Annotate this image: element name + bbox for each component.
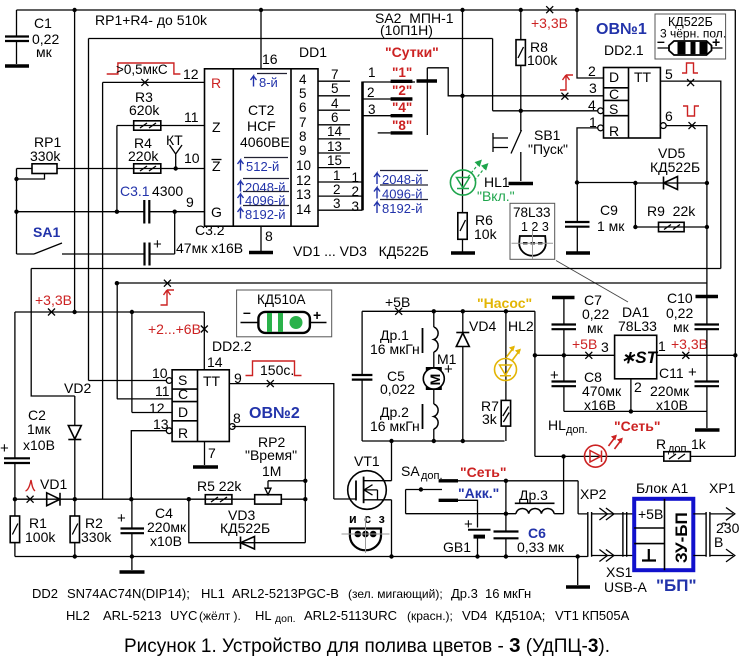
svg-text:6: 6 bbox=[299, 100, 307, 115]
svg-text:S: S bbox=[609, 101, 618, 117]
svg-text:3: 3 bbox=[601, 339, 609, 355]
potentiometer RP2 bbox=[245, 434, 305, 504]
svg-text:1k: 1k bbox=[691, 436, 707, 452]
svg-text:DD2.1: DD2.1 bbox=[604, 42, 644, 58]
resistor R1 bbox=[10, 499, 56, 556]
svg-text:ARL2-5113URC: ARL2-5113URC bbox=[304, 608, 397, 623]
edge symbol at C input bbox=[560, 75, 573, 90]
svg-text:"Вкл.": "Вкл." bbox=[477, 188, 515, 204]
potentiometer RP1 bbox=[14, 134, 61, 181]
svg-text:620k: 620k bbox=[129, 102, 160, 118]
svg-text:11: 11 bbox=[184, 109, 199, 125]
svg-text:"Сеть": "Сеть" bbox=[614, 418, 660, 434]
svg-text:3k: 3k bbox=[482, 411, 498, 427]
svg-text:10k: 10k bbox=[474, 226, 498, 242]
svg-text:13: 13 bbox=[327, 139, 342, 154]
svg-text:Z: Z bbox=[212, 119, 221, 135]
svg-text:VD1 ... VD3 КД522Б: VD1 ... VD3 КД522Б bbox=[293, 243, 429, 259]
DD1 outside pin numbers bbox=[327, 67, 359, 214]
svg-text:8192-й: 8192-й bbox=[382, 201, 423, 216]
red spike symbol bbox=[26, 480, 36, 491]
diode VD1 bbox=[40, 476, 67, 506]
svg-text:3: 3 bbox=[589, 80, 597, 96]
svg-text:R: R bbox=[211, 75, 221, 91]
svg-text:100k: 100k bbox=[527, 52, 558, 68]
pulse label >0,5мкС bbox=[107, 62, 199, 82]
svg-text:13: 13 bbox=[296, 187, 311, 202]
svg-text:78L33: 78L33 bbox=[618, 318, 657, 334]
test point KT bbox=[166, 132, 183, 171]
svg-text:16 мкГн: 16 мкГн bbox=[370, 341, 420, 357]
capacitor C8 bbox=[550, 355, 622, 413]
X on +3.3V mid right bbox=[682, 352, 689, 359]
wire vertical x117 to DD2.2 C input bbox=[116, 283, 118, 399]
wire DD2.2 pin8 output to RP2 bbox=[232, 427, 305, 543]
svg-text:6: 6 bbox=[331, 110, 339, 125]
resistor R2 bbox=[70, 499, 112, 556]
capacitor C11 bbox=[650, 355, 719, 413]
svg-text:+: + bbox=[550, 367, 559, 384]
IC DD1 CT2 HCF4060BE bbox=[205, 44, 328, 226]
ground C1 bbox=[5, 64, 29, 68]
svg-text:47мк х16В: 47мк х16В bbox=[176, 240, 243, 256]
svg-text:12: 12 bbox=[183, 66, 199, 82]
svg-text:мк: мк bbox=[36, 44, 53, 60]
svg-text:+: + bbox=[313, 307, 321, 323]
svg-text:(красн.);: (красн.); bbox=[407, 609, 453, 623]
wire bottom ground rail bbox=[15, 556, 588, 558]
svg-text:R: R bbox=[178, 425, 188, 441]
svg-text:4060BE: 4060BE bbox=[240, 134, 290, 150]
svg-text:4300: 4300 bbox=[152, 183, 183, 199]
wire DD2.2 S pin bbox=[89, 380, 167, 382]
svg-text:КТ: КТ bbox=[166, 132, 183, 148]
svg-text:+2...+6В: +2...+6В bbox=[148, 321, 201, 337]
switch SA1 bbox=[17, 224, 63, 254]
wire DD2.2 R pin bbox=[131, 431, 166, 500]
svg-text:х10В: х10В bbox=[656, 397, 688, 413]
battery GB1 bbox=[443, 516, 491, 557]
svg-text:5: 5 bbox=[331, 81, 339, 96]
wire long bus x102.6 bbox=[102, 82, 104, 499]
wire top +3.3V rail bbox=[17, 9, 736, 11]
svg-text:"БП": "БП" bbox=[656, 576, 697, 595]
svg-text:HL: HL bbox=[548, 417, 566, 433]
svg-text:14: 14 bbox=[207, 354, 223, 370]
resistor R8 bbox=[516, 10, 558, 113]
svg-text:4: 4 bbox=[299, 72, 307, 87]
capacitor C6 bbox=[494, 481, 565, 557]
bottom part list text bbox=[32, 586, 630, 625]
DA1 bottom rail bbox=[564, 410, 707, 412]
IC DA1 78L33 bbox=[615, 304, 659, 379]
svg-text:"Сеть": "Сеть" bbox=[460, 464, 506, 480]
svg-text:G: G bbox=[211, 204, 222, 220]
svg-text:XS1: XS1 bbox=[606, 564, 633, 580]
capacitor C5 bbox=[352, 311, 415, 441]
resistor Rdop 1k bbox=[656, 355, 735, 461]
svg-text:Z: Z bbox=[212, 158, 221, 174]
inductor Dr.2 bbox=[370, 390, 438, 441]
svg-text:2: 2 bbox=[634, 379, 642, 395]
svg-text:+5В: +5В bbox=[572, 336, 597, 352]
svg-text:8: 8 bbox=[265, 228, 273, 244]
svg-text:3: 3 bbox=[368, 102, 376, 117]
wire DD2.2 pin7 ground bbox=[204, 442, 206, 466]
wire VD1-R1 node line y=499.2 bbox=[15, 498, 131, 500]
svg-text:9: 9 bbox=[186, 194, 194, 210]
svg-text:2: 2 bbox=[333, 182, 341, 197]
block A1 power supply bbox=[634, 480, 696, 595]
svg-text:TT: TT bbox=[203, 373, 221, 389]
svg-text:GB1: GB1 bbox=[443, 539, 471, 555]
wire +3.3V mid line y=312 bbox=[15, 311, 204, 313]
svg-text:"8": "8" bbox=[392, 118, 412, 133]
svg-text:16: 16 bbox=[262, 51, 278, 67]
svg-text:0,33 мк: 0,33 мк bbox=[517, 539, 565, 555]
svg-text:+5В: +5В bbox=[385, 294, 410, 310]
IC DD2.2 trigger bbox=[149, 338, 252, 442]
svg-text:КД522Б: КД522Б bbox=[650, 159, 700, 175]
svg-text:"4": "4" bbox=[392, 100, 412, 115]
svg-text:и с з: и с з bbox=[349, 512, 387, 526]
svg-text:C: C bbox=[609, 86, 619, 102]
svg-text:SA: SA bbox=[401, 463, 420, 479]
svg-text:9: 9 bbox=[299, 143, 307, 158]
svg-text:"Сутки": "Сутки" bbox=[385, 44, 439, 60]
wire bus x88 down to DD2.2 S bbox=[88, 39, 90, 381]
svg-text:R5 22k: R5 22k bbox=[197, 478, 242, 494]
svg-text:1 2 3: 1 2 3 bbox=[521, 220, 549, 234]
svg-text:доп.: доп. bbox=[668, 443, 690, 455]
switch SAdop bbox=[401, 463, 578, 528]
wire DD2.1 R pin line bbox=[577, 128, 598, 183]
svg-text:2: 2 bbox=[352, 184, 360, 199]
svg-text:КД510А: КД510А bbox=[257, 292, 306, 307]
svg-text:+3,3В: +3,3В bbox=[35, 292, 72, 308]
svg-text:100k: 100k bbox=[25, 529, 56, 545]
wire DD2.1 D pin from rail bbox=[577, 10, 604, 78]
svg-text:8192-й: 8192-й bbox=[245, 207, 286, 222]
ground C11 bbox=[706, 411, 708, 428]
diode VD5 bbox=[633, 145, 709, 190]
svg-text:1: 1 bbox=[352, 170, 360, 185]
svg-text:10: 10 bbox=[296, 158, 311, 173]
svg-text:+5В: +5В bbox=[638, 506, 663, 522]
switch SA2 MPN-1 bbox=[363, 10, 604, 210]
edge symbol on pin5 net bbox=[161, 290, 175, 305]
svg-text:Др.3: Др.3 bbox=[519, 487, 548, 503]
svg-text:мк: мк bbox=[673, 319, 690, 335]
svg-text:+: + bbox=[0, 440, 9, 457]
svg-text:13: 13 bbox=[153, 416, 169, 432]
info box KD510A bbox=[237, 290, 332, 337]
wire second rail bbox=[89, 38, 493, 40]
svg-text:ЗУ-БП: ЗУ-БП bbox=[672, 512, 691, 563]
wire bus x117 (R3/C3.1/pin5/DD2.2-C node) bbox=[116, 126, 118, 212]
svg-text:КД522Б: КД522Б bbox=[220, 520, 270, 536]
svg-text:Рисунок 1. Устройство для поли: Рисунок 1. Устройство для полива цветов … bbox=[124, 634, 610, 657]
svg-text:–: – bbox=[657, 33, 665, 49]
svg-text:5: 5 bbox=[665, 66, 673, 82]
svg-text:2: 2 bbox=[367, 85, 375, 100]
svg-text:мк: мк bbox=[587, 320, 604, 336]
svg-text:2: 2 bbox=[588, 63, 596, 79]
LED HL2 yellow bbox=[477, 295, 534, 400]
svg-text:HCF: HCF bbox=[247, 118, 276, 134]
wire bus x74 from top rail to +3.3V line bbox=[74, 10, 76, 312]
svg-text:R9 22k: R9 22k bbox=[647, 203, 696, 219]
wire DD2.2 D pin bbox=[132, 312, 172, 413]
svg-text:12: 12 bbox=[149, 400, 165, 416]
svg-text:0,022: 0,022 bbox=[380, 381, 415, 397]
svg-text:+: + bbox=[444, 361, 453, 378]
svg-text:доп.: доп. bbox=[566, 424, 588, 436]
svg-text:D: D bbox=[178, 404, 188, 420]
svg-text:R: R bbox=[656, 436, 666, 452]
svg-text:220k: 220k bbox=[128, 148, 159, 164]
info VT1 package ISZ bbox=[342, 512, 390, 553]
wire DD2.1 S pin line bbox=[493, 39, 598, 111]
svg-text:15: 15 bbox=[327, 153, 342, 168]
svg-text:7: 7 bbox=[208, 445, 216, 461]
svg-text:C9: C9 bbox=[600, 202, 618, 218]
resistor R5 bbox=[129, 478, 255, 504]
svg-text:1 мк: 1 мк bbox=[597, 218, 625, 234]
svg-text:1М: 1М bbox=[262, 463, 281, 479]
svg-text:+3,3В: +3,3В bbox=[531, 15, 568, 31]
svg-text:330k: 330k bbox=[81, 529, 112, 545]
wire DA1 input line bbox=[535, 354, 615, 356]
wire DA1 output +3.3V bbox=[657, 354, 736, 356]
svg-text:х10В: х10В bbox=[23, 437, 55, 453]
svg-text:1: 1 bbox=[368, 65, 376, 80]
capacitor C10 bbox=[666, 290, 719, 355]
svg-text:+: + bbox=[712, 34, 720, 50]
svg-text:1мк: 1мк bbox=[27, 421, 51, 437]
svg-text:ОВ№2: ОВ№2 bbox=[249, 405, 300, 422]
svg-text:USB-A: USB-A bbox=[604, 579, 647, 595]
ground C9 bbox=[566, 251, 590, 255]
capacitor C3.2 bbox=[62, 212, 243, 266]
svg-text:+: + bbox=[153, 236, 162, 253]
svg-text:C: C bbox=[178, 386, 188, 402]
wire DD2.2 pin9 output bbox=[229, 384, 333, 499]
svg-text:14: 14 bbox=[296, 202, 312, 217]
svg-text:16 мкГн: 16 мкГн bbox=[370, 418, 420, 434]
svg-text:DD2SN74AC74N(DIP14);HL1ARL2-52: DD2SN74AC74N(DIP14);HL1ARL2-5213PGC-В(зе… bbox=[32, 586, 531, 601]
svg-text:D: D bbox=[609, 69, 619, 85]
svg-text:TT: TT bbox=[634, 69, 652, 85]
svg-text:VT1: VT1 bbox=[354, 453, 380, 469]
pulse symbol negative bbox=[683, 106, 699, 116]
svg-text:3: 3 bbox=[352, 199, 360, 214]
svg-text:VD1: VD1 bbox=[40, 476, 67, 492]
LED HL1 green bbox=[450, 10, 514, 213]
svg-text:4: 4 bbox=[331, 96, 339, 111]
DD1 pin8 ground bbox=[249, 226, 273, 252]
diode VD4 bbox=[456, 311, 496, 441]
svg-text:R: R bbox=[609, 123, 619, 139]
svg-text:>0,5мкС: >0,5мкС bbox=[116, 62, 168, 77]
svg-text:14: 14 bbox=[327, 124, 343, 139]
svg-text:(10П1Н): (10П1Н) bbox=[380, 22, 433, 38]
DD1 right pin stubs bbox=[318, 81, 363, 210]
ground R6 bbox=[451, 251, 475, 255]
wire VD5 left vertical bbox=[634, 183, 636, 227]
svg-text:х10В: х10В bbox=[150, 533, 182, 549]
capacitor C9 bbox=[565, 180, 635, 251]
svg-text:330k: 330k bbox=[30, 148, 61, 164]
wire x16.5 down bbox=[16, 169, 18, 255]
svg-text:10: 10 bbox=[152, 365, 168, 381]
svg-text:VD4: VD4 bbox=[469, 318, 496, 334]
svg-text:3: 3 bbox=[333, 196, 341, 211]
svg-text:"Пуск": "Пуск" bbox=[528, 141, 568, 157]
inductor Dr.1 bbox=[370, 311, 438, 367]
wire DD2.1 pin5 output bbox=[660, 81, 720, 268]
svg-text:Блок А1: Блок А1 bbox=[636, 480, 688, 496]
resistor R4 bbox=[57, 135, 205, 173]
svg-text:RP1+R4- до 510k: RP1+R4- до 510k bbox=[95, 12, 208, 28]
wire DA1 pin2 bbox=[630, 379, 632, 412]
connector XP2 bbox=[578, 481, 635, 562]
diode VD3 branch bbox=[189, 499, 305, 549]
labels 2048/4096/8192 outside bbox=[374, 171, 428, 217]
svg-text:SA1: SA1 bbox=[33, 224, 60, 240]
pushbutton SB1 bbox=[493, 111, 568, 184]
svg-text:"Насос": "Насос" bbox=[477, 295, 532, 311]
diode VD2 bbox=[64, 380, 91, 499]
svg-text:7: 7 bbox=[331, 67, 339, 82]
svg-text:8: 8 bbox=[299, 129, 307, 144]
pulse label 150c bbox=[246, 361, 302, 378]
info box 78L33 TO-92 bbox=[510, 203, 555, 259]
svg-text:В: В bbox=[714, 534, 723, 550]
wire pin6 bus joins C10 bbox=[706, 283, 708, 298]
svg-text:78L33: 78L33 bbox=[513, 205, 551, 220]
svg-text:11: 11 bbox=[155, 383, 170, 399]
svg-text:+3,3В: +3,3В bbox=[671, 336, 708, 352]
X mark on top rail bbox=[546, 6, 553, 13]
pulse symbol positive bbox=[682, 63, 698, 73]
svg-text:х16В: х16В bbox=[584, 397, 616, 413]
wire reset net y=269.6 (DD2.1 pin6 to VD2) bbox=[31, 268, 721, 270]
capacitor C3.1 bbox=[14, 183, 204, 224]
svg-text:7: 7 bbox=[299, 115, 307, 130]
IC DD2.1 trigger bbox=[588, 21, 660, 139]
resistor R7 bbox=[481, 398, 511, 441]
svg-text:10: 10 bbox=[184, 150, 200, 166]
pump bottom rail bbox=[362, 440, 504, 442]
inductor Dr.3 bbox=[406, 456, 564, 513]
wire DD1 pin16 feed bbox=[260, 10, 262, 69]
svg-text:5: 5 bbox=[299, 86, 307, 101]
svg-text:C3.1: C3.1 bbox=[120, 183, 150, 199]
svg-text:ХР2: ХР2 bbox=[580, 486, 607, 502]
svg-text:1: 1 bbox=[333, 168, 341, 183]
DD1 stage labels blue bbox=[238, 74, 290, 223]
ground XS1 bbox=[577, 557, 579, 586]
motor M1 bbox=[423, 351, 456, 390]
svg-text:"2": "2" bbox=[392, 83, 412, 98]
svg-text:DD2.2: DD2.2 bbox=[212, 338, 252, 354]
capacitor C2 bbox=[0, 312, 55, 499]
svg-text:CT2: CT2 bbox=[248, 102, 275, 118]
callout line 78L33 to DA1 bbox=[556, 261, 628, 303]
svg-text:6: 6 bbox=[665, 108, 673, 124]
svg-text:C10: C10 bbox=[667, 290, 693, 306]
wire DD2.1 pin6 output bbox=[660, 123, 666, 129]
svg-text:C1: C1 bbox=[34, 15, 52, 31]
wire DD2.2 C pin bbox=[117, 398, 172, 400]
svg-text:∗ST: ∗ST bbox=[621, 348, 659, 367]
info box KD522B bbox=[655, 14, 726, 59]
capacitor C7 bbox=[552, 292, 610, 355]
resistor R6 bbox=[458, 212, 498, 252]
wire +5V to DA1 junction bbox=[534, 311, 536, 456]
wire DD1 pin12 reset line bbox=[103, 81, 205, 83]
resistor R9 bbox=[633, 203, 709, 232]
svg-text:12: 12 bbox=[296, 173, 311, 188]
svg-text:VD2: VD2 bbox=[64, 380, 91, 396]
svg-text:512-й: 512-й bbox=[246, 159, 279, 174]
svg-text:ХР1: ХР1 bbox=[709, 480, 736, 496]
svg-text:C11: C11 bbox=[659, 365, 684, 381]
svg-text:"Время": "Время" bbox=[245, 447, 297, 463]
svg-text:1: 1 bbox=[658, 338, 666, 354]
transistor VT1 bbox=[334, 441, 392, 557]
svg-text:+: + bbox=[117, 510, 126, 527]
node top rail junctions bbox=[72, 8, 76, 12]
svg-text:8: 8 bbox=[233, 410, 241, 426]
svg-text:ОВ№1: ОВ№1 bbox=[596, 21, 647, 38]
svg-text:HL2: HL2 bbox=[508, 318, 534, 334]
svg-text:+: + bbox=[688, 364, 697, 381]
resistor R3 bbox=[117, 89, 205, 130]
wire pin5 net y=283.2 bbox=[117, 282, 707, 284]
connector XP1 bbox=[693, 480, 739, 562]
svg-text:–: – bbox=[243, 304, 251, 320]
svg-text:8-й: 8-й bbox=[259, 75, 278, 90]
svg-text:DD1: DD1 bbox=[299, 44, 327, 60]
svg-text:М: М bbox=[427, 374, 443, 386]
svg-text:150с.: 150с. bbox=[260, 362, 294, 378]
wire right +3.3V bus bbox=[734, 10, 736, 456]
wire DD2.2 pin14 feed bbox=[203, 312, 205, 370]
capacitor C1 bbox=[5, 10, 59, 64]
svg-text:"1": "1" bbox=[392, 65, 412, 80]
svg-text:"Акк.": "Акк." bbox=[458, 485, 499, 501]
svg-text:C3.2: C3.2 bbox=[195, 222, 225, 238]
main ground symbol bbox=[131, 557, 133, 571]
DD1 inside pin numbers bbox=[296, 72, 312, 217]
LED HLdop red "Set" indicator bbox=[535, 417, 664, 467]
capacitor C4 bbox=[117, 499, 187, 556]
